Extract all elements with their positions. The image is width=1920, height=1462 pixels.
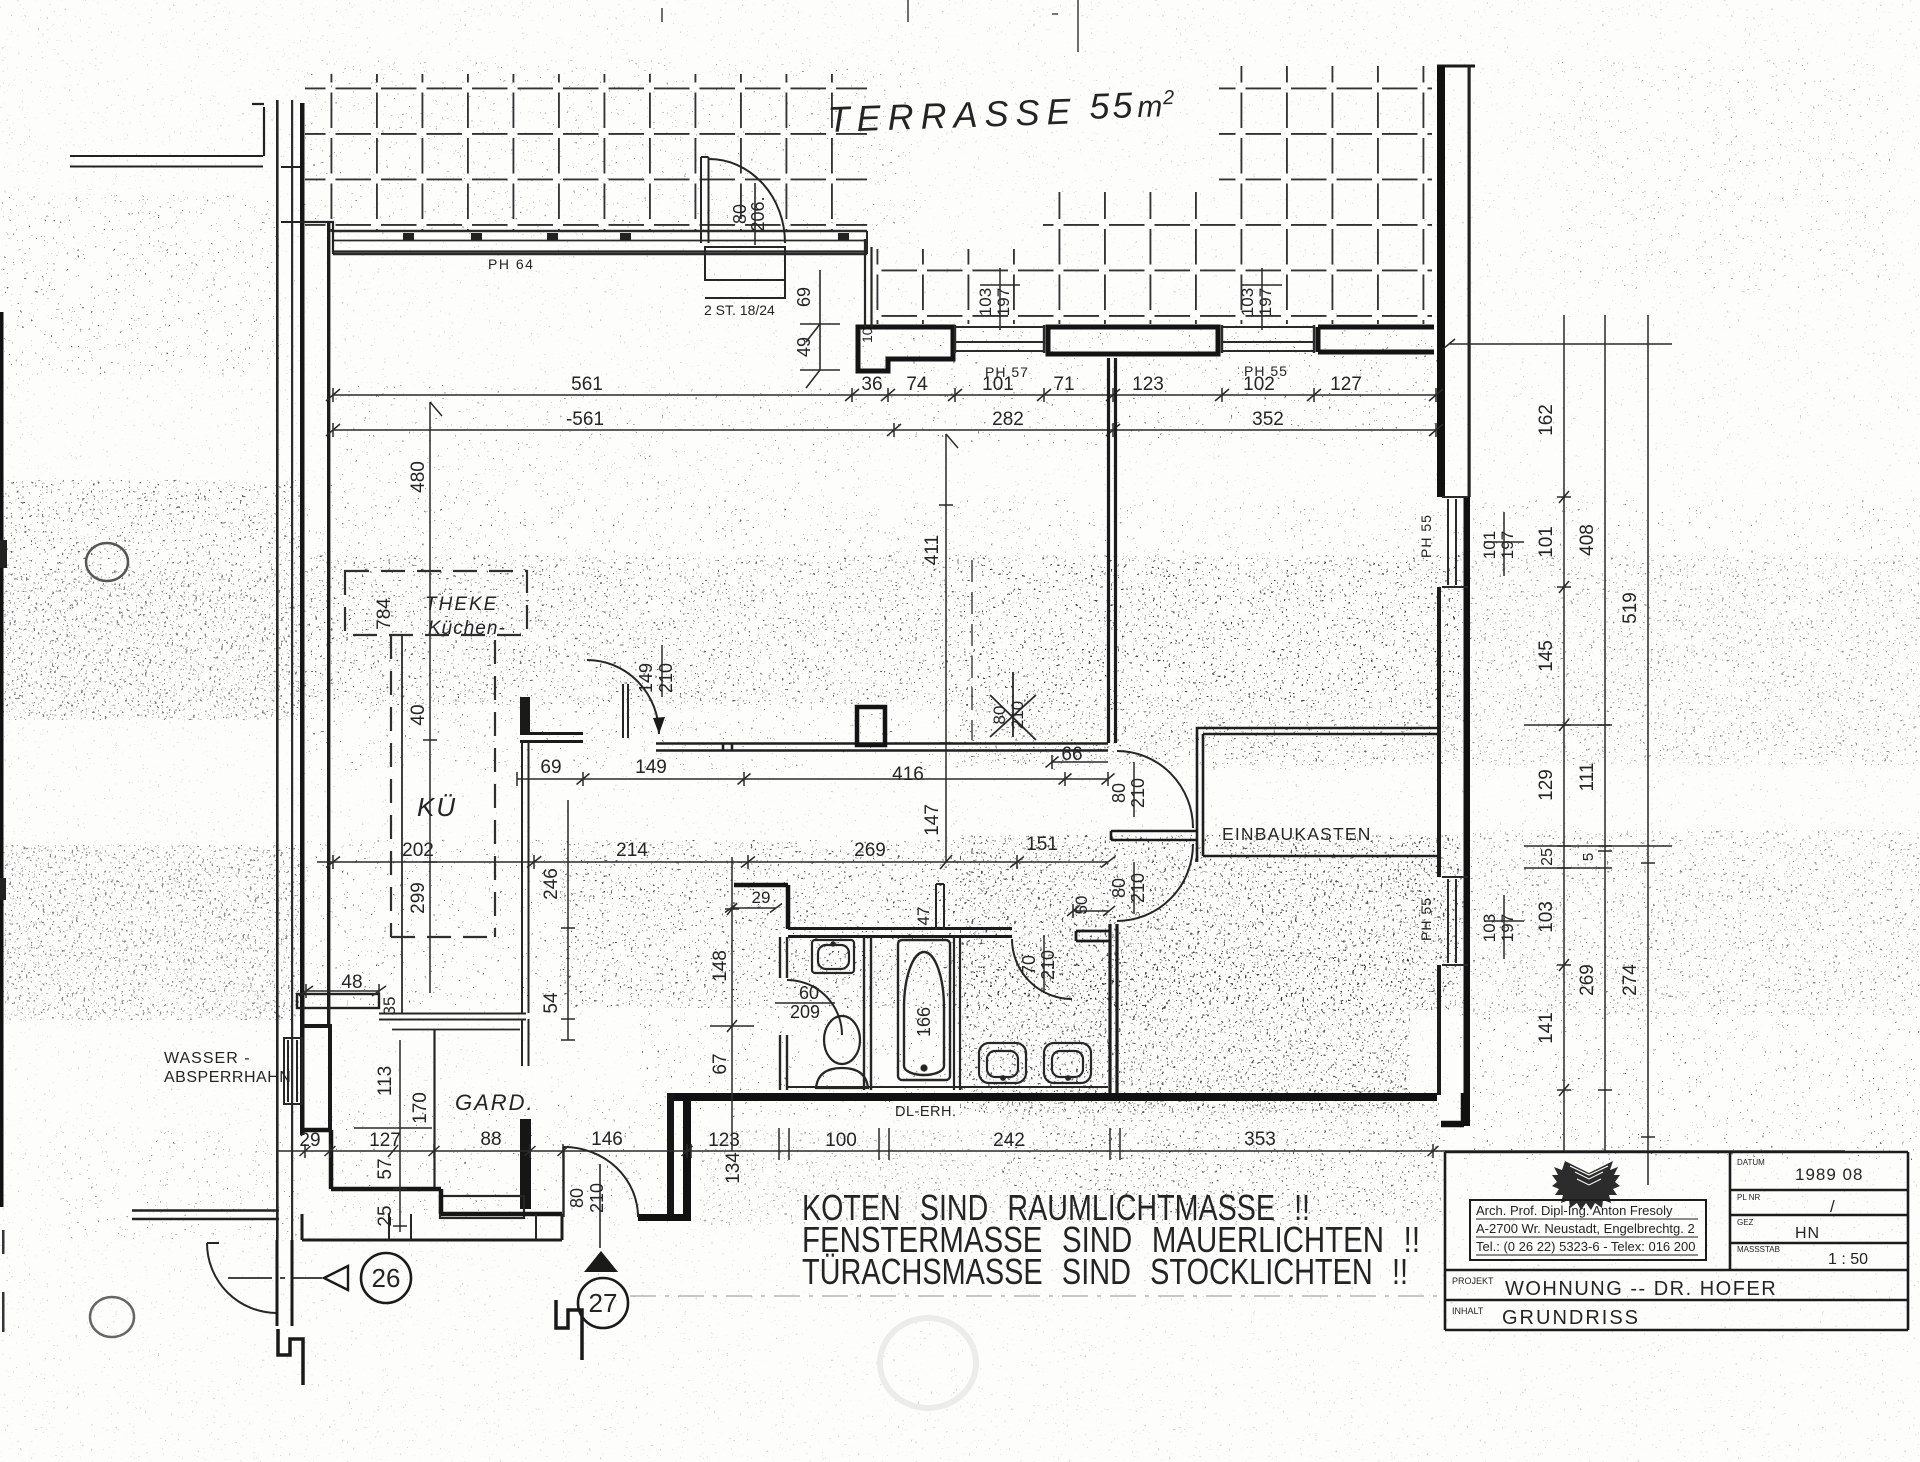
svg-text:29: 29 (752, 888, 771, 907)
svg-text:1989 08: 1989 08 (1795, 1165, 1863, 1184)
crossed-out door mark (990, 672, 1036, 740)
corridor wall bottom-left (double line) (132, 1211, 279, 1220)
washroom door labels 70/210 (1019, 935, 1058, 993)
svg-text:197: 197 (1256, 288, 1275, 316)
svg-text:27: 27 (589, 1288, 618, 1318)
svg-text:PH 55: PH 55 (1418, 897, 1434, 941)
outer wall stub vertical cap (252, 104, 264, 156)
architect logo (1552, 1161, 1620, 1210)
kitchen/hall partition vertical (522, 741, 529, 1013)
interior wall living/bedroom (1109, 358, 1116, 743)
dim row 69/149/416/66 (517, 772, 1115, 786)
svg-text:210: 210 (1008, 701, 1027, 729)
door jamb mark outside (277, 1240, 292, 1326)
svg-text:25: 25 (375, 1205, 396, 1226)
svg-text:111: 111 (1577, 763, 1598, 792)
dim line 246 (561, 800, 575, 930)
svg-text:HN: HN (1795, 1225, 1820, 1242)
svg-text:66: 66 (1061, 744, 1082, 765)
svg-text:49: 49 (794, 337, 814, 357)
svg-text:57: 57 (375, 1158, 396, 1179)
svg-text:TERRASSE: TERRASSE (827, 90, 1078, 140)
svg-text:36: 36 (861, 374, 882, 395)
svg-text:123: 123 (708, 1130, 740, 1151)
svg-text:80: 80 (730, 204, 750, 224)
svg-text:127: 127 (369, 1130, 401, 1151)
bottom dimension row 29/127/88/146/123/100/242/353 (277, 1128, 1845, 1160)
terrace tile grid middle band (1043, 192, 1432, 249)
wall pier right end of PH64 band (865, 239, 872, 327)
svg-text:INHALT: INHALT (1452, 1306, 1484, 1316)
kitchen counter dashed outline (391, 635, 495, 937)
WC toilet (816, 1016, 868, 1088)
right wall window PH 55 (lower) (1442, 877, 1468, 965)
svg-text:210: 210 (1038, 950, 1058, 980)
dim 48 line (299, 984, 386, 998)
svg-text:PL NR: PL NR (1737, 1193, 1760, 1202)
kitchen bottom line (379, 1014, 526, 1020)
svg-text:50: 50 (1072, 896, 1091, 915)
svg-text:88: 88 (480, 1129, 501, 1150)
svg-text:246: 246 (541, 868, 562, 900)
window PH57 dim 103/197 (976, 268, 1020, 330)
top edge scan marks (662, 0, 1078, 52)
WC sink (812, 940, 854, 973)
svg-text:103: 103 (976, 288, 995, 316)
svg-text:151: 151 (1026, 834, 1058, 855)
svg-text:55: 55 (1089, 84, 1136, 127)
svg-text:WASSER -: WASSER - (164, 1050, 251, 1067)
right outer wall inner line lower (1437, 965, 1441, 1095)
hall east wall (683, 1093, 691, 1218)
svg-text:54: 54 (541, 992, 562, 1014)
left wall mid line (291, 100, 293, 1240)
bedroom door upper labels (1109, 762, 1148, 817)
svg-text:148: 148 (710, 950, 731, 982)
svg-text:149: 149 (636, 663, 656, 693)
svg-text:48: 48 (341, 972, 362, 993)
svg-text:MASSSTAB: MASSSTAB (1737, 1245, 1780, 1254)
svg-text:2: 2 (1162, 87, 1175, 109)
right outer wall inner line mid (1437, 587, 1441, 877)
chimney flue box on wall (857, 707, 885, 745)
bedroom door upper 80/210 arc (1117, 751, 1193, 828)
dim 50 (1067, 904, 1115, 918)
title block frame (1445, 1152, 1908, 1330)
svg-text:74: 74 (906, 374, 928, 395)
dashed room divider line (971, 560, 973, 740)
svg-text:70: 70 (1019, 955, 1039, 975)
kitchen edge solid line (401, 635, 403, 1013)
pipe stub at bathroom top (936, 884, 944, 930)
WC left wall lower (780, 1035, 787, 1090)
svg-text:411: 411 (922, 535, 943, 565)
gard top line (392, 1029, 520, 1031)
scan left edge line (0, 312, 7, 1332)
living room south wall (656, 743, 1108, 751)
svg-text:299: 299 (408, 882, 429, 914)
dim row 202/214/269/151 (317, 855, 1115, 869)
title date row (1737, 1158, 1863, 1184)
svg-text:129: 129 (1536, 769, 1557, 801)
svg-text:WOHNUNG -- DR. HOFER: WOHNUNG -- DR. HOFER (1505, 1278, 1777, 1300)
terrace tile grid right tall block (1219, 66, 1432, 192)
label WASSER-ABSPERRHAHN (164, 1050, 291, 1086)
wash basin 2 (1044, 1043, 1091, 1083)
svg-text:26: 26 (372, 1263, 401, 1293)
svg-text:101: 101 (982, 374, 1014, 395)
door stub at washroom (1076, 931, 1110, 941)
tub enclosure line (954, 937, 960, 1090)
terrace door leaf (80/206) (701, 157, 709, 243)
svg-text:TÜRACHSMASSE SIND STOCKLICHTEN: TÜRACHSMASSE SIND STOCKLICHTEN !! (802, 1251, 1408, 1292)
svg-text:561: 561 (571, 374, 603, 395)
svg-text:10: 10 (859, 327, 875, 343)
right outer wall top cap (1437, 65, 1475, 68)
WC left wall upper (780, 937, 787, 978)
left wall step at terrace level (281, 167, 305, 222)
svg-text:2 ST. 18/24: 2 ST. 18/24 (704, 302, 775, 318)
hall door arrow (653, 717, 665, 734)
right dim line 1 (162/101/145/129/25/103/141) (1557, 315, 1571, 1151)
svg-text:146: 146 (591, 1129, 623, 1150)
svg-text:GEZ: GEZ (1737, 1218, 1754, 1227)
kitchen THEKE dashed box (345, 571, 527, 635)
svg-text:80: 80 (1109, 878, 1129, 898)
dim line 411/147 vertical (939, 434, 958, 869)
svg-text:PROJEKT: PROJEKT (1452, 1276, 1494, 1286)
svg-text:210: 210 (1128, 873, 1148, 903)
door 26 swing arc (207, 1243, 277, 1313)
corridor dim step wall (29) (734, 885, 788, 929)
right outer wall outer thin line upper (1468, 66, 1471, 497)
svg-text:GARD.: GARD. (455, 1090, 535, 1115)
step glyph below door 27 (556, 1300, 582, 1360)
svg-text:519: 519 (1620, 592, 1641, 624)
right wall window PH 55 (upper) (1442, 497, 1468, 587)
section dash line 26 (228, 1277, 322, 1279)
bedroom SE corner wall (1441, 1093, 1464, 1124)
svg-text:210: 210 (1128, 778, 1148, 808)
dimension row -561/282/352 (326, 423, 1443, 437)
svg-text:Tel.: (0 26 22) 5323-6 - Telex: Tel.: (0 26 22) 5323-6 - Telex: 016 200 (1476, 1239, 1695, 1254)
svg-text:145: 145 (1536, 640, 1557, 672)
right dim line 2 (408/111/5/269) (1598, 315, 1612, 1151)
left wall inner thick line (300, 103, 305, 1135)
right dim connector at wall (1443, 339, 1672, 868)
svg-text:242: 242 (993, 1130, 1025, 1151)
right outer wall outer thick line lower (1464, 497, 1471, 1126)
svg-text:80: 80 (990, 706, 1009, 725)
wash basin 1 (979, 1043, 1026, 1083)
architect address box (1470, 1200, 1706, 1260)
svg-text:209: 209 (790, 1002, 820, 1022)
right lower window dim 103/197 (1480, 895, 1524, 959)
terrace middle wall block (1048, 327, 1218, 354)
svg-text:35: 35 (380, 997, 399, 1016)
svg-text:127: 127 (1330, 374, 1362, 395)
dim 54 (561, 930, 575, 1040)
svg-text:353: 353 (1244, 1129, 1276, 1150)
svg-text:Küchen-: Küchen- (428, 618, 506, 639)
svg-text:197: 197 (994, 288, 1013, 316)
svg-text:60: 60 (799, 983, 819, 1003)
bedroom lower wall (hall side) (1110, 924, 1117, 1093)
crossed door labels 80 210 (990, 701, 1027, 729)
svg-text:PH 55: PH 55 (1418, 514, 1434, 558)
bedroom door lower 80/210 arc (1117, 844, 1193, 921)
svg-text:40: 40 (408, 704, 429, 725)
svg-text:102: 102 (1243, 374, 1275, 395)
right dim line 3 (519/274) (1641, 315, 1655, 1185)
dimension row 561/36/74/101/71/123/102/127 (326, 388, 1443, 402)
living room inner wall face (327, 222, 330, 1027)
svg-text:THEKE: THEKE (425, 594, 498, 615)
window PH 57 (955, 325, 1044, 353)
door 27 axis line (599, 1164, 601, 1248)
left outer wall line (276, 100, 279, 1240)
hall door leaf (149/210) (623, 684, 628, 738)
door stub wall at closet (1111, 831, 1197, 840)
dim 29 (725, 904, 782, 913)
svg-text:147: 147 (922, 804, 943, 836)
svg-text:100: 100 (825, 1130, 857, 1151)
bedroom door lower labels (1109, 862, 1148, 914)
svg-text:71: 71 (1053, 374, 1074, 395)
svg-text:DATUM: DATUM (1737, 1158, 1765, 1167)
svg-text:EINBAUKASTEN: EINBAUKASTEN (1222, 824, 1372, 844)
terrace door size label 80/206 (730, 183, 768, 245)
wall pier under kitchen (48 step) (297, 994, 379, 1008)
kitchen wall stub (hall side) (520, 697, 583, 742)
title plan nr row (1737, 1193, 1835, 1216)
svg-text:A-2700 Wr. Neustadt, Engelbrec: A-2700 Wr. Neustadt, Engelbrechtg. 2 (1476, 1221, 1695, 1236)
window PH 64 band (333, 231, 867, 254)
WC door labels 60/209 (775, 983, 835, 1022)
svg-text:DL-ERH.: DL-ERH. (895, 1104, 957, 1120)
svg-text:GRUNDRISS: GRUNDRISS (1502, 1307, 1640, 1329)
svg-text:103: 103 (1536, 901, 1557, 933)
entry outer wall (302, 1214, 562, 1240)
svg-text:134: 134 (723, 1152, 744, 1184)
small step glyph below left wall (278, 1329, 303, 1385)
closet EINBAUKASTEN (1197, 728, 1437, 862)
svg-text:67: 67 (710, 1053, 731, 1074)
svg-text:149: 149 (635, 757, 667, 778)
svg-text:274: 274 (1620, 964, 1641, 996)
entry wall jog lines (389, 1214, 536, 1240)
label TERRASSE 55 m2 (handwritten) (827, 83, 1175, 140)
window PH 64 mullions (403, 233, 849, 240)
svg-text:197: 197 (1498, 531, 1517, 559)
punch hole top (86, 543, 128, 581)
svg-text:1 : 50: 1 : 50 (1828, 1251, 1868, 1268)
terrace side wall (left of PH57) (858, 327, 953, 371)
svg-text:170: 170 (410, 1092, 431, 1124)
bathroom bottom inner line (788, 1086, 1108, 1088)
bathroom top wall (788, 929, 1012, 937)
dim 69/49 at terrace step (794, 270, 875, 388)
door 27 labels 80/210 (567, 1183, 607, 1213)
window in left wall (Wasser) (284, 1038, 302, 1104)
hall east wall inner line (667, 1093, 674, 1218)
window PH55 top dim 103/197 (1238, 268, 1282, 330)
svg-text:69: 69 (540, 757, 561, 778)
hall/gard partition (520, 1019, 531, 1209)
section marker 27 triangle (584, 1251, 618, 1272)
apartment bottom wall (thick) (667, 1093, 1437, 1101)
bathtub (898, 940, 950, 1080)
svg-text:47: 47 (914, 907, 933, 926)
gard room west wall (433, 1029, 435, 1189)
svg-text:/: / (1830, 1197, 1835, 1216)
svg-text:210: 210 (587, 1183, 607, 1213)
outer wall stub top-left (double line) (70, 156, 263, 167)
entry inner wall zigzag (302, 1130, 562, 1214)
terrace tile grid left block (305, 74, 867, 232)
ghost circle bottom middle (880, 1318, 976, 1408)
svg-text:352: 352 (1252, 409, 1284, 430)
terrace tile grid right low band (872, 249, 1432, 324)
svg-text:269: 269 (1577, 964, 1598, 996)
entry door 27 arc (564, 1147, 639, 1217)
terrace door swing arc (709, 159, 785, 243)
svg-text:113: 113 (375, 1066, 396, 1096)
wall pier left of window band (305, 222, 333, 254)
living room top inner wall line (333, 250, 867, 252)
svg-text:103: 103 (1238, 288, 1257, 316)
title project row (1452, 1276, 1777, 1300)
window PH 55 (top wall) (1222, 325, 1314, 353)
svg-text:m: m (1137, 90, 1163, 124)
section dash line 27 (630, 1295, 1443, 1297)
svg-text:784: 784 (374, 598, 395, 630)
dim 66 (1046, 755, 1109, 769)
svg-text:408: 408 (1577, 524, 1598, 556)
title content row (1452, 1306, 1640, 1329)
svg-text:166: 166 (914, 1007, 934, 1037)
terrace steps 2 ST. 18/24 (705, 247, 785, 298)
title gez row (1737, 1218, 1820, 1242)
svg-text:80: 80 (1109, 783, 1129, 803)
punch hole bottom (90, 1297, 134, 1337)
svg-text:480: 480 (408, 461, 429, 493)
svg-text:Arch. Prof. Dipl-Ing. Anton Fr: Arch. Prof. Dipl-Ing. Anton Fresoly (1476, 1203, 1673, 1218)
inner face jog at hall (302, 1026, 330, 1130)
svg-text:197: 197 (1498, 914, 1517, 942)
hall door swing arc (587, 660, 659, 734)
hall door labels 149 210 (636, 645, 676, 697)
svg-text:416: 416 (892, 764, 924, 785)
svg-text:141: 141 (1536, 1012, 1557, 1044)
washroom door 70/210 arc (1012, 939, 1072, 999)
WC/bath separating wall (864, 937, 871, 1090)
gard closet box (440, 1196, 524, 1218)
svg-text:101: 101 (1536, 526, 1557, 558)
dim line 480 vertical (423, 402, 442, 993)
svg-text:101: 101 (1480, 531, 1499, 559)
svg-text:282: 282 (992, 409, 1024, 430)
title scale row (1737, 1245, 1868, 1268)
svg-text:80: 80 (567, 1188, 587, 1208)
right outer wall inner thick line upper (1437, 66, 1445, 497)
svg-text:KÜ: KÜ (417, 792, 457, 822)
svg-text:25: 25 (1539, 848, 1556, 866)
section marker 27 circle (578, 1278, 628, 1328)
section marker 26 triangle (324, 1266, 348, 1290)
svg-text:269: 269 (854, 840, 886, 861)
svg-text:5: 5 (1580, 853, 1597, 861)
svg-text:69: 69 (794, 287, 814, 307)
svg-text:210: 210 (656, 663, 676, 693)
entry door 27 leaf (562, 1147, 564, 1217)
right upper window dim 101/197 (1480, 512, 1524, 576)
dim line 113/57/25 (354, 1040, 432, 1232)
svg-text:103: 103 (1480, 914, 1499, 942)
svg-text:123: 123 (1132, 374, 1164, 395)
svg-text:206.: 206. (748, 196, 768, 231)
svg-text:29: 29 (299, 1130, 320, 1151)
svg-text:214: 214 (616, 840, 648, 861)
WC door 60/209 arc (787, 980, 842, 1035)
svg-text:PH 64: PH 64 (488, 256, 534, 272)
svg-text:162: 162 (1536, 404, 1557, 436)
svg-text:-561: -561 (566, 409, 604, 430)
section marker 26 circle (361, 1253, 411, 1303)
entry door right jamb wall (638, 1214, 691, 1221)
svg-text:ABSPERRHAHN: ABSPERRHAHN (164, 1069, 291, 1086)
svg-text:202: 202 (402, 840, 434, 861)
terrace right wall block (1318, 327, 1434, 352)
dim line 148/67 (710, 857, 754, 1151)
